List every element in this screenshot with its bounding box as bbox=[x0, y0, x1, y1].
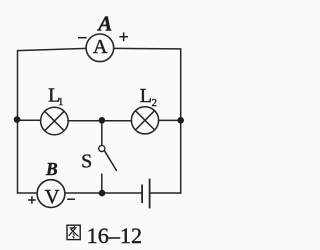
svg-text:2: 2 bbox=[151, 97, 157, 109]
svg-text:1: 1 bbox=[58, 97, 63, 108]
svg-text:B: B bbox=[45, 159, 58, 179]
svg-text:A: A bbox=[96, 12, 112, 36]
svg-text:L: L bbox=[140, 85, 152, 107]
svg-text:A: A bbox=[93, 36, 108, 58]
svg-text:16–12: 16–12 bbox=[87, 223, 142, 248]
svg-text:S: S bbox=[81, 151, 92, 173]
svg-text:V: V bbox=[45, 186, 60, 208]
